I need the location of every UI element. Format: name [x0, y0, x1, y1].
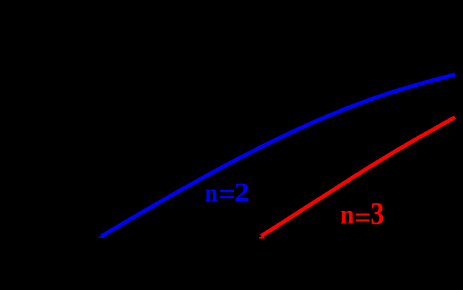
svg-text:n: n — [205, 178, 218, 207]
svg-text:=: = — [218, 177, 235, 211]
blue curve n=2 — [101, 75, 455, 237]
svg-text:2: 2 — [234, 178, 250, 207]
blue curve tip dash — [99, 236, 106, 238]
red curve tip dash — [259, 237, 265, 239]
svg-text:=: = — [354, 202, 371, 234]
svg-text:3: 3 — [370, 196, 384, 231]
svg-text:n: n — [340, 200, 354, 230]
red curve n=3 — [261, 117, 455, 236]
